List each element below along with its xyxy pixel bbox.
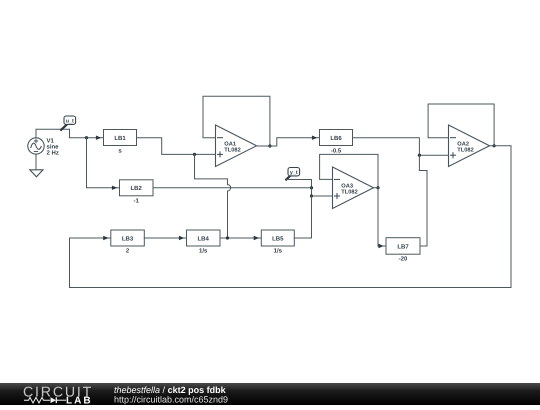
wire LB4 output to LB5 input xyxy=(220,237,261,239)
svg-text:OA1: OA1 xyxy=(224,141,236,147)
svg-text:u_t: u_t xyxy=(66,119,74,125)
svg-text:LB2: LB2 xyxy=(131,185,143,192)
svg-text:TL082: TL082 xyxy=(224,148,240,154)
svg-text:LAB: LAB xyxy=(66,395,93,405)
wire OA2 output big loop to LB3 input xyxy=(70,146,512,288)
op-amp OA1 (TL082) xyxy=(203,96,270,166)
svg-text:TL082: TL082 xyxy=(457,148,473,154)
arrowhead into LB5 xyxy=(254,236,259,240)
voltage probe y_t xyxy=(286,168,299,180)
Laplace block LB2, value -1 xyxy=(120,180,154,205)
Laplace block LB3, value 2 xyxy=(111,230,145,255)
voltage source V1 xyxy=(28,137,59,156)
ground xyxy=(30,170,43,177)
svg-text:-0.5: -0.5 xyxy=(331,147,342,154)
node OA3 output / feedback tap xyxy=(376,186,379,189)
CircuitLab logo xyxy=(23,384,93,406)
node junction LB1-out / feedback branch xyxy=(193,153,196,156)
wire OA1 output to LB6 input xyxy=(257,138,320,146)
wire LB1 output to OA1 + input xyxy=(137,138,216,155)
Laplace block LB7, value -20 xyxy=(386,238,420,263)
wire node down to LB5 output xyxy=(311,188,313,238)
Laplace block LB6, value -0.5 xyxy=(320,130,353,155)
wire V1 top to LB1 input xyxy=(36,129,104,137)
node junction LB6/LB7/OA2+ xyxy=(418,154,421,157)
svg-text:http://circuitlab.com/c65znd9: http://circuitlab.com/c65znd9 xyxy=(114,394,228,404)
svg-text:y_t: y_t xyxy=(290,170,298,176)
svg-text:V1: V1 xyxy=(47,137,55,144)
svg-text:thebestfella / ckt2 pos fdbk: thebestfella / ckt2 pos fdbk xyxy=(114,385,227,395)
wire LB3 output to LB4 input xyxy=(144,237,186,239)
wire node to OA3 + input xyxy=(312,195,333,197)
wire LB5 output up to OA3 + node xyxy=(294,196,311,238)
wire OA3 output to apex xyxy=(374,187,379,189)
node junction OA3 + input xyxy=(310,194,313,197)
svg-text:-1: -1 xyxy=(134,197,140,204)
wire OA1 + input down to LB4 output (with hop) xyxy=(195,154,231,238)
node OA2 output / feedback tap xyxy=(493,144,496,147)
svg-text:2 Hz: 2 Hz xyxy=(47,150,59,157)
voltage probe u_t xyxy=(61,116,75,130)
svg-text:-20: -20 xyxy=(399,256,408,263)
svg-text:LB4: LB4 xyxy=(198,235,210,242)
node junction V1/LB1/LB2 xyxy=(85,136,88,139)
wire V1 bottom to ground xyxy=(35,154,37,170)
svg-text:LB1: LB1 xyxy=(114,135,126,142)
svg-text:LB7: LB7 xyxy=(397,243,409,250)
svg-text:LB6: LB6 xyxy=(330,135,342,142)
arrowhead into LB7 xyxy=(378,244,383,248)
arrowhead into LB2 xyxy=(112,186,117,190)
wire junction down to LB2 input xyxy=(87,138,120,188)
arrowhead into LB6 xyxy=(312,136,317,140)
node OA1 output / feedback tap xyxy=(268,144,271,147)
svg-text:1/s: 1/s xyxy=(274,248,283,255)
svg-text:sine: sine xyxy=(47,143,60,150)
arrowhead into LB1 xyxy=(96,136,101,140)
node junction LB2-out / probe xyxy=(310,186,313,189)
op-amp OA2 (TL082) xyxy=(428,104,494,167)
node junction LB4 output / OA1 feedback branch xyxy=(226,236,229,239)
svg-text:TL082: TL082 xyxy=(341,190,357,196)
arrowhead into LB3 xyxy=(103,236,108,240)
wire OA3 output down to LB7 input xyxy=(378,188,386,246)
svg-text:1/s: 1/s xyxy=(199,248,208,255)
footer bar xyxy=(0,383,540,405)
wire LB7 output up to OA2 + node xyxy=(419,155,427,246)
wire probe y_t to node xyxy=(286,180,311,188)
svg-text:LB3: LB3 xyxy=(122,235,134,242)
Laplace block LB4, value 1/s xyxy=(187,230,221,255)
op-amp OA3 (TL082) xyxy=(320,154,378,208)
Laplace block LB1, value s xyxy=(104,130,137,155)
svg-text:LB5: LB5 xyxy=(272,235,284,242)
svg-text:OA3: OA3 xyxy=(341,183,353,189)
wire LB2 output to OA3 branch node xyxy=(153,187,312,189)
Laplace block LB5, value 1/s xyxy=(261,230,294,255)
svg-text:OA2: OA2 xyxy=(457,141,469,147)
wire LB6 output to OA2 + input xyxy=(353,138,449,156)
arrowhead into LB4 xyxy=(179,236,184,240)
